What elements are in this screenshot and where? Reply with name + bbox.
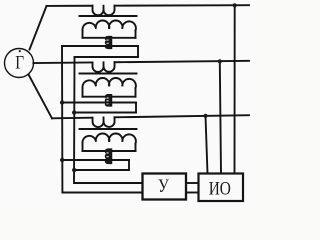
winding L3 control coil: [105, 149, 111, 164]
wire T2 secondary bottom: [83, 96, 136, 98]
wire phase A riser (diagonal from generator to top bus): [30, 6, 47, 50]
svg-text:Г: Г: [15, 52, 24, 73]
box IO measuring element: [199, 174, 244, 202]
wire phase B bus: [33, 61, 249, 73]
transformer T3 primary winding: [92, 117, 114, 127]
wire bus V2 to amplifier: [74, 57, 143, 183]
box U amplifier: [143, 174, 187, 200]
wire T1 secondary right lead: [135, 31, 137, 38]
wire phase C bus: [52, 115, 249, 128]
wire right drop phase A: [234, 5, 236, 173]
node V1-W1 group2 junction: [60, 100, 64, 104]
transformer T3 secondary winding: [82, 133, 135, 143]
wire W2 group3: [75, 169, 130, 171]
node phase C junction: [203, 114, 207, 118]
winding L2 control coil: [105, 95, 111, 106]
node phase B junction: [218, 59, 222, 63]
wire W2 group2: [75, 112, 137, 114]
wire hairpin group2: [135, 103, 137, 113]
label G dot (phasor): [19, 50, 21, 52]
wire T1 secondary bottom: [83, 37, 136, 39]
winding L1 control coil: [105, 37, 111, 49]
generator G circle: [5, 49, 34, 78]
wire phase C riser (diagonal from generator): [29, 75, 53, 119]
node V2-W2 group3 junction: [72, 168, 76, 172]
wire U-IO link upper: [186, 182, 199, 184]
wire T3 secondary right lead: [135, 144, 137, 152]
node phase A junction: [233, 3, 237, 7]
wire T1 secondary left lead: [82, 31, 84, 38]
wire right drop phase C: [206, 116, 208, 174]
wire hairpin group1: [137, 46, 139, 57]
svg-text:ИО: ИО: [209, 178, 231, 199]
transformer T1 secondary winding: [82, 20, 135, 30]
wire U-IO link lower: [186, 192, 199, 194]
transformer T2 core: [80, 73, 137, 75]
svg-text:У: У: [158, 175, 169, 196]
wire phase A bus: [47, 5, 250, 15]
wire T2 secondary right lead: [135, 88, 137, 97]
transformer T2 secondary winding: [82, 78, 135, 88]
node V1-W1 group3 junction: [60, 158, 64, 162]
transformer T2 primary winding: [92, 62, 114, 72]
wire W1 group1: [62, 45, 138, 47]
wire T2 secondary left lead: [82, 88, 84, 97]
wire W2 group1: [75, 56, 139, 58]
node V2-W2 group2 junction: [72, 110, 76, 114]
transformer T1 primary winding: [92, 6, 114, 16]
wire right drop phase B: [220, 61, 221, 173]
transformer T3 core: [80, 128, 137, 130]
transformer T1 core: [80, 15, 137, 17]
wire W1 group2: [62, 102, 136, 104]
wire bus V1 to amplifier: [62, 46, 143, 193]
wire T3 secondary left lead: [82, 144, 84, 152]
wire T3 secondary bottom: [83, 150, 136, 152]
wire hairpin group3: [128, 160, 130, 170]
wire W1 group3: [62, 159, 129, 161]
